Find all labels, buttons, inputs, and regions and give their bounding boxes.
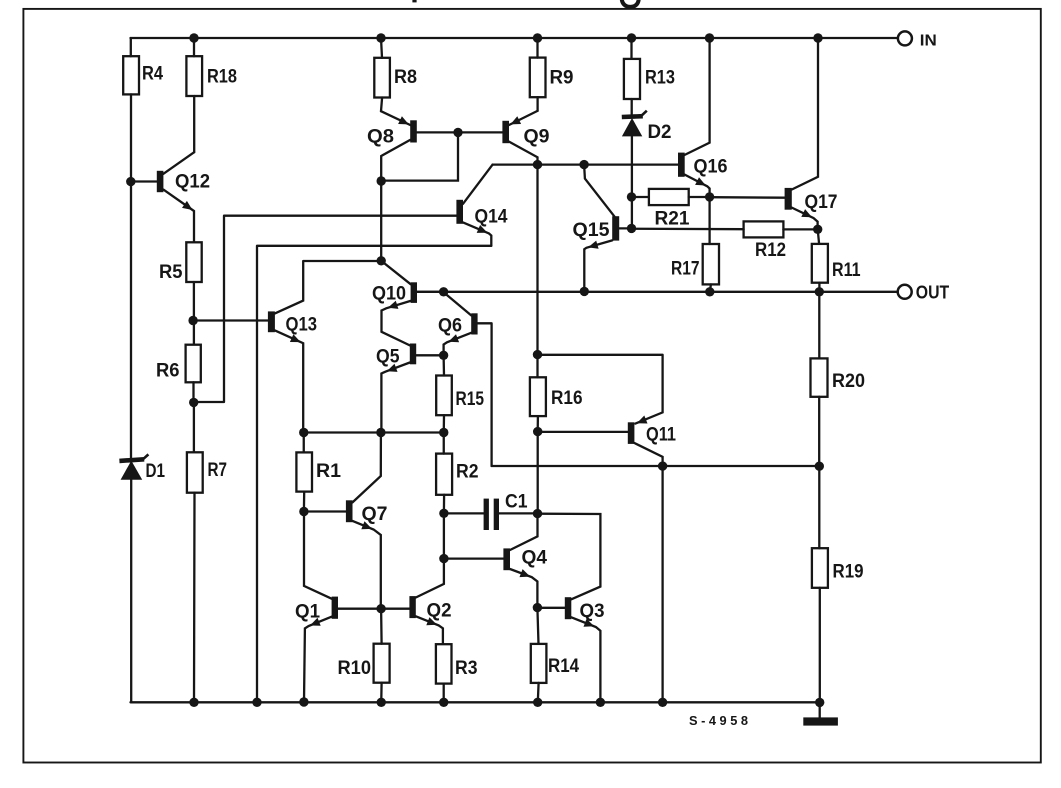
caption fragment g (clipped) [622,0,639,7]
label R18 [207,66,237,88]
svg-text:R21: R21 [655,208,690,230]
resistor R14 [531,608,547,703]
svg-text:Q12: Q12 [175,171,210,193]
resistor R15 [436,355,452,432]
label R10 [338,657,372,679]
terminal OUT [898,285,912,299]
wire Q11 collector-gnd [661,466,663,702]
resistor R17 [703,197,719,292]
svg-text:Q14: Q14 [475,206,508,228]
label Q6 [438,315,462,337]
label S-4958 [689,713,748,728]
node Q5 base R15 [439,351,448,360]
svg-text:R19: R19 [833,561,864,583]
label R5 [159,261,183,283]
transistor Q8 [381,111,502,181]
resistor R4 [123,38,139,459]
svg-text:R3: R3 [455,657,478,679]
resistor R20 [811,292,828,466]
node Q11 collector [658,461,667,470]
resistor R9 [530,38,546,111]
node wireB gnd [252,698,261,707]
svg-text:R18: R18 [207,66,237,88]
label D2 [648,121,672,143]
svg-text:Q2: Q2 [427,600,452,622]
resistor R3 [436,644,452,702]
node C1 right [533,509,542,518]
label Q3 [580,600,605,622]
svg-text:R16: R16 [551,387,583,409]
svg-text:Q10: Q10 [372,283,406,305]
terminal IN [898,31,912,45]
label R16 [551,387,583,409]
svg-text:Q1: Q1 [295,601,320,623]
svg-text:D1: D1 [146,460,166,482]
svg-text:Q17: Q17 [805,191,838,213]
node Q15 base [627,224,636,233]
node Q11 gnd [658,698,667,707]
node R15 bottom R2 top [439,428,448,437]
label D1 [146,460,166,482]
svg-text:C1: C1 [505,491,528,513]
node Q7 base [299,507,308,516]
node Q2 base R10 [376,604,385,613]
label R21 [655,208,690,230]
svg-text:Q9: Q9 [524,126,550,148]
label R6 [156,360,180,382]
svg-text:R6: R6 [156,360,180,382]
wire R5-R6 [193,282,195,345]
svg-text:R15: R15 [456,388,485,410]
resistor R1 [296,433,312,512]
wire ground rail [131,701,820,703]
diode D2 [622,111,647,229]
label R19 [833,561,864,583]
transistor Q16 [678,38,710,197]
node ground [815,698,824,707]
node Q17 collector rail [813,33,822,42]
node Q8 base [453,128,462,137]
transistor Q13 [193,261,381,433]
resistor R2 [436,433,452,514]
node R9 top [533,33,542,42]
label Q16 [694,156,728,178]
node R20 R19 junction [815,462,824,471]
caption fragment tick [412,0,416,2]
node R17 bottom [705,287,714,296]
node Q16 collector rail [705,33,714,42]
svg-text:Q7: Q7 [362,503,388,525]
label R3 [455,657,478,679]
node R10 gnd [377,698,386,707]
resistor R8 [374,38,390,111]
svg-text:Q5: Q5 [376,346,400,368]
resistor R7 [187,452,203,492]
svg-text:R10: R10 [338,657,372,679]
svg-text:R4: R4 [142,63,163,85]
svg-text:R9: R9 [550,67,574,89]
label R2 [456,461,479,483]
wire R16-C1 col [537,432,539,514]
transistor Q4 [444,514,538,608]
label R4 [142,63,163,85]
svg-text:R17: R17 [671,258,700,280]
svg-text:R1: R1 [316,460,341,482]
transistor Q12 [131,152,194,242]
diode D1 [119,454,148,702]
transistor Q6 [444,292,492,466]
transistor Q2 [381,596,443,644]
resistor R19 [812,466,828,702]
label R13 [645,67,675,89]
resistor R10 [374,609,390,703]
label R7 [208,459,228,481]
svg-text:Q16: Q16 [694,156,728,178]
svg-text:R12: R12 [755,239,786,261]
wire R1 top net [304,431,444,433]
resistor R12 [632,221,818,237]
svg-text:Q3: Q3 [580,600,605,622]
label Q17 [805,191,838,213]
svg-text:IN: IN [920,32,937,49]
label Q11 [646,424,676,446]
svg-text:R5: R5 [159,261,183,283]
label C1 [505,491,528,513]
resistor R21 [632,189,710,205]
label Q9 [524,126,550,148]
node R6 R7 junction [189,398,198,407]
svg-text:R14: R14 [548,655,579,677]
resistor R13 [624,38,640,114]
label R17 [671,258,700,280]
wire R7-gnd [193,493,196,703]
svg-text:R13: R13 [645,67,675,89]
node Q10 collector [377,256,386,265]
transistor Q1 [304,512,381,702]
node Q8 collector [377,176,386,185]
svg-text:Q13: Q13 [286,314,318,336]
label Q10 [372,283,406,305]
transistor Q15 [584,165,631,292]
label R12 [755,239,786,261]
svg-text:D2: D2 [648,121,672,143]
wire Q8 base-collector [381,132,458,180]
label R1 [316,460,341,482]
node Q15 emitter [580,287,589,296]
wire Q4 base col [443,513,445,558]
node Q15 collector [579,160,588,169]
node Q11 emitter net [533,350,542,359]
label Q1 [295,601,320,623]
label R15 [456,388,485,410]
wire Q14 emitter net [257,246,491,703]
node Q17 base [705,192,714,201]
label IN [920,32,937,49]
label Q5 [376,346,400,368]
label Q12 [175,171,210,193]
label Q2 [427,600,452,622]
resistor R11 [812,229,828,291]
node R5 R6 junction [188,316,197,325]
label Q15 [573,219,610,241]
transistor Q17 [785,38,818,229]
label Q14 [475,206,508,228]
transistor Q10 [381,261,443,346]
node Q12 base [126,177,135,186]
node R1 top [299,428,308,437]
node Q9 collector [533,160,542,169]
node R3 gnd [439,698,448,707]
svg-text:Q11: Q11 [646,424,676,446]
label Q8 [367,126,394,148]
node R7 gnd [189,698,198,707]
wire OUT net [417,291,898,293]
wire Q9 collector col [536,165,538,355]
node Q11 base [533,427,542,436]
node Q3 base R14 [533,603,542,612]
transistor Q9 [502,111,537,165]
label Q7 [362,503,388,525]
svg-text:Q4: Q4 [522,547,548,569]
wire Q14 base net [194,216,457,402]
resistor R18 [186,38,202,152]
transistor Q3 [537,514,600,703]
wire Q16 base net [493,163,678,165]
node Q7 collector [376,428,385,437]
node R21 left [627,192,636,201]
svg-text:R7: R7 [208,459,228,481]
wire Q6 base net [492,465,820,467]
node R18 top [189,33,198,42]
node R8 top [376,33,385,42]
wire Q8 collector col [380,181,382,261]
label R9 [550,67,574,89]
resistor R6 [186,345,201,383]
label Q13 [286,314,318,336]
transistor Q14 [456,165,492,246]
label OUT [916,281,950,302]
resistor R5 [186,242,201,282]
resistor R16 [530,355,546,432]
label Q4 [522,547,548,569]
capacitor C1 [444,499,538,530]
node R11 bottom [815,287,824,296]
svg-text:R20: R20 [832,370,865,392]
svg-text:Q6: Q6 [438,315,462,337]
node Q6 collector [439,287,448,296]
transistor Q7 [304,433,381,609]
svg-text:R11: R11 [832,259,861,281]
wire Q2 collector col [416,559,444,598]
wire Q17 base [710,196,785,199]
node Q1 emitter gnd [299,697,308,706]
svg-text:R8: R8 [394,66,417,88]
label R11 [832,259,861,281]
node R14 gnd [533,698,542,707]
node R13 top [627,33,636,42]
transistor Q5 [381,344,443,433]
svg-text:Q15: Q15 [573,219,610,241]
node Q17 emitter [813,225,822,234]
label R8 [394,66,417,88]
node Q4 base net [439,554,448,563]
label R20 [832,370,865,392]
transistor Q11 [538,355,663,466]
wire IN rail [131,37,898,39]
svg-text:OUT: OUT [916,281,950,302]
ground [803,702,838,725]
svg-text:Q8: Q8 [367,126,394,148]
label R14 [548,655,579,677]
node Q3 emitter gnd [596,698,605,707]
wire R6-R7 [192,382,195,452]
svg-text:R2: R2 [456,461,479,483]
node R2 bottom C1 left [439,509,448,518]
